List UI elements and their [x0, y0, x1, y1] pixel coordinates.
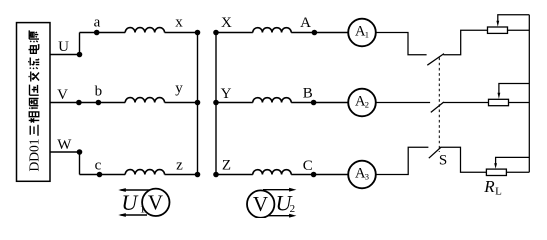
wire box to V node row2	[50, 102, 125, 104]
svg-text:L: L	[495, 186, 502, 198]
svg-text:V: V	[253, 192, 268, 216]
char 压	[30, 85, 39, 96]
rheostat 2 wiper stem and top wire	[499, 84, 529, 94]
coil Z-C winding	[253, 170, 291, 175]
coil Y-B winding	[253, 98, 291, 103]
svg-text:R: R	[483, 177, 495, 196]
wire switch pole 2 to rheostat 2	[443, 102, 488, 104]
switch S gang dashed link	[438, 58, 440, 153]
node y (star point)	[195, 100, 201, 106]
coil b-y winding	[125, 98, 164, 103]
svg-text:z: z	[176, 157, 183, 173]
right star bus X-Y-Z	[215, 33, 217, 175]
rheostat R2 wiper arrowhead	[498, 93, 501, 99]
svg-text:S: S	[439, 153, 447, 169]
U2 top arrowhead	[289, 188, 296, 192]
rheostat 3 right terminal wire	[506, 171, 529, 173]
node B	[311, 100, 317, 106]
switch blade pole 3	[429, 147, 441, 158]
svg-text:2: 2	[365, 100, 369, 110]
wire switch pole 1 to rheostat 1	[443, 30, 487, 55]
svg-text:x: x	[175, 14, 183, 30]
svg-text:W: W	[57, 137, 72, 153]
char 源	[29, 30, 39, 42]
wire coil x end to left bus	[165, 32, 198, 34]
svg-text:DD01: DD01	[27, 139, 42, 172]
wire switch pole 3 to rheostat 3	[440, 147, 486, 172]
svg-text:V: V	[148, 191, 163, 215]
voltmeter V (U1)	[142, 189, 169, 216]
node b	[96, 100, 102, 106]
svg-text:U: U	[121, 190, 139, 215]
rheostat R1 body	[488, 27, 508, 33]
svg-text:2: 2	[290, 203, 296, 215]
svg-text:A: A	[300, 15, 311, 31]
svg-text:c: c	[95, 157, 102, 173]
power source box DD01	[17, 23, 51, 182]
svg-text:B: B	[303, 86, 313, 102]
wire row3 left to coil c-z	[80, 174, 126, 176]
char 相	[29, 112, 40, 123]
rheostat R3 wiper arrowhead	[494, 163, 497, 169]
switch blade pole 1	[427, 54, 444, 66]
CJK glyphs 三相调压交流电源 drawn as paths, rotated	[28, 30, 39, 135]
wire coil z end to left bus	[165, 174, 198, 176]
voltmeter U2 leads with arrows	[263, 190, 294, 216]
node Z	[213, 172, 219, 178]
char 交	[29, 72, 40, 82]
wires: main black strokes	[50, 28, 349, 175]
wire box to W node	[50, 151, 80, 153]
svg-text:Y: Y	[221, 86, 232, 102]
wire A1 to switch pole 1	[376, 33, 427, 55]
U1 top arrowhead	[118, 188, 126, 192]
right side wires (switch + loads), slightly thinner	[376, 15, 530, 175]
node A	[312, 30, 318, 36]
node W	[77, 149, 83, 155]
svg-text:C: C	[303, 158, 313, 174]
U1 bottom arrowhead	[118, 213, 126, 217]
wire Y to coil row2	[216, 102, 253, 104]
rheostat 1 right terminal wire	[508, 29, 530, 31]
rheostat 1 wiper stem and top wire	[498, 15, 530, 22]
svg-text:3: 3	[365, 172, 369, 182]
char 电	[29, 45, 39, 54]
wire coil to A node to ammeter A1	[291, 32, 348, 34]
ammeter A1	[348, 19, 376, 47]
char 调	[29, 98, 38, 109]
node X	[213, 30, 219, 36]
left star bus x-y-z	[197, 33, 199, 175]
coil a-x winding	[125, 28, 164, 33]
voltmeter U1 leads with arrows	[121, 190, 153, 215]
wire U node up to row1	[79, 33, 81, 55]
svg-text:V: V	[57, 87, 68, 103]
right common bus	[528, 15, 530, 173]
char 三	[30, 125, 38, 136]
svg-text:U: U	[58, 39, 69, 55]
rheostat 3 wiper stem and top wire	[496, 157, 530, 164]
wire W node down to row3	[79, 152, 81, 175]
svg-text:b: b	[95, 83, 103, 99]
ammeter A3	[348, 161, 376, 189]
node C	[311, 172, 317, 178]
voltmeter V (U2)	[247, 190, 274, 217]
wire X to coil row1	[216, 32, 253, 34]
svg-text:X: X	[221, 15, 232, 31]
svg-text:a: a	[94, 15, 101, 31]
U2 bottom arrowhead	[289, 214, 296, 218]
svg-text:1: 1	[365, 30, 369, 40]
wire A2 to switch pole 2	[376, 102, 431, 104]
wire coil y end to left bus	[165, 102, 198, 104]
wire coil to C node to ammeter A3	[291, 174, 348, 176]
coil c-z winding	[125, 170, 164, 175]
wire box to U node	[50, 54, 80, 56]
node V	[76, 100, 82, 106]
node z (star point)	[195, 172, 201, 178]
svg-text:y: y	[175, 81, 183, 97]
node Y	[213, 100, 219, 106]
char 流	[28, 58, 39, 69]
node U	[77, 52, 83, 58]
svg-text:1: 1	[140, 204, 146, 216]
rheostat R2 body	[489, 99, 509, 105]
rheostat R1 wiper arrowhead	[496, 21, 499, 27]
node a	[94, 30, 100, 36]
svg-text:Z: Z	[222, 157, 231, 173]
node x (star point)	[195, 30, 201, 36]
rheostat R3 body	[486, 169, 506, 175]
coil X-A winding	[253, 28, 291, 33]
wire coil to B node to ammeter A2	[291, 102, 348, 104]
node c	[97, 172, 103, 178]
ammeter A2	[348, 89, 376, 117]
wire row1 left: to coil a-x	[80, 32, 126, 34]
switch blade pole 2	[431, 102, 444, 112]
wire A3 to switch pole 3	[376, 147, 429, 174]
rheostat 2 right terminal wire	[509, 102, 530, 104]
wire Z to coil row3	[216, 174, 253, 176]
